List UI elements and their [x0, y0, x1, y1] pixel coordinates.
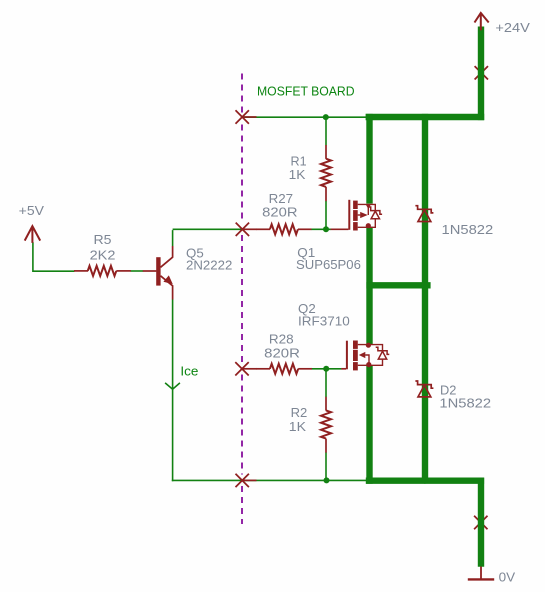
junction D2 / bottom bus	[422, 478, 428, 484]
svg-text:0V: 0V	[499, 569, 516, 584]
resistor R1	[325, 145, 327, 159]
boundary cross 0V wire	[474, 516, 487, 529]
wire Q1 source drop (thick)	[366, 114, 372, 204]
wire mid bus horizontal (thick)	[366, 282, 430, 288]
wire R27 to R1 node	[311, 228, 331, 230]
wire R2 top segment	[325, 369, 327, 397]
svg-text:R2: R2	[291, 405, 308, 420]
boundary cross gate2 rail	[235, 362, 248, 375]
wire Q5 emitter drop	[172, 299, 174, 481]
board boundary dashed line	[241, 74, 243, 113]
junction R2 / bottom rail	[324, 477, 330, 483]
boundary cross top rail	[236, 110, 249, 123]
resistor R2	[325, 397, 327, 411]
svg-text:R28: R28	[269, 332, 294, 347]
wire top rail thin	[242, 116, 366, 118]
wire +24V top bus horizontal (thick)	[366, 114, 485, 120]
wire bottom bus horizontal (thick)	[366, 478, 484, 484]
svg-text:2N2222: 2N2222	[186, 257, 232, 272]
svg-text:MOSFET BOARD: MOSFET BOARD	[257, 84, 355, 99]
svg-text:+24V: +24V	[495, 20, 530, 35]
svg-text:IRF3710: IRF3710	[298, 313, 350, 328]
wire Q5 collector riser	[172, 230, 174, 246]
svg-text:+5V: +5V	[19, 203, 45, 218]
supply arrow +24V	[475, 13, 489, 31]
svg-text:1N5822: 1N5822	[439, 395, 491, 410]
wire bottom rail thin	[172, 479, 367, 481]
svg-text:1K: 1K	[289, 419, 307, 434]
wire R2 bottom segment	[325, 452, 327, 481]
transistor Q2 (N-MOSFET)	[341, 368, 346, 370]
wire Q2 source drop (thick)	[366, 366, 372, 484]
wire +24V vertical (thick)	[478, 27, 484, 121]
svg-text:1K: 1K	[289, 167, 306, 182]
resistor R5	[74, 270, 88, 272]
transistor Q5	[143, 270, 157, 272]
wire Q5 collector rail	[173, 228, 244, 230]
svg-text:2K2: 2K2	[90, 248, 116, 263]
boundary cross gate1 rail	[236, 223, 249, 236]
ground 0V symbol	[480, 567, 482, 580]
transistor Q1 (P-MOSFET)	[331, 228, 349, 230]
current arrow Ice	[165, 383, 180, 389]
svg-text:Ice: Ice	[180, 363, 198, 378]
wire Q1 drain to Q2 drain (thick)	[366, 227, 372, 345]
resistor R28	[256, 368, 270, 370]
boundary cross +24V wire	[475, 66, 488, 79]
wire R28 to Q2 gate	[312, 368, 342, 370]
wire R5 to Q5 base	[131, 270, 144, 272]
junction R28 / R2 / Q2 gate	[323, 366, 329, 372]
resistor R27	[256, 228, 270, 230]
wire 0V vertical (thick)	[478, 478, 484, 567]
svg-text:820R: 820R	[264, 346, 300, 361]
wire R1 bottom segment	[325, 201, 327, 230]
wire R1 top segment	[325, 117, 327, 145]
boundary cross bottom rail	[236, 474, 249, 487]
svg-text:R5: R5	[94, 232, 112, 247]
wire diode branch vertical (thick)	[422, 114, 428, 478]
junction top rail / R1	[323, 114, 329, 120]
svg-text:SUP65P06: SUP65P06	[296, 257, 361, 272]
diode D2	[415, 381, 433, 388]
wire +5V lead	[33, 242, 75, 271]
svg-text:1N5822: 1N5822	[442, 222, 494, 237]
supply arrow +5V	[25, 226, 41, 243]
svg-text:820R: 820R	[262, 205, 297, 220]
diode D1 (1N5822)	[415, 206, 433, 213]
junction R1 / R27 / Q1 gate	[323, 226, 329, 232]
